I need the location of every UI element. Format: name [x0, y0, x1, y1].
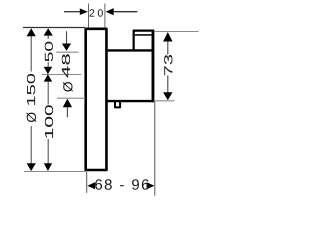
dim D48 label 48	[62, 54, 70, 77]
dim D150 top arrow	[27, 28, 36, 36]
dim D48 label diameter sign	[63, 82, 73, 92]
dim 20 right arrow	[106, 8, 114, 15]
dim 100 line lower	[47, 139, 49, 164]
dim D150 bottom arrow	[27, 163, 36, 171]
handle top cap	[134, 31, 153, 51]
dim D150 label diameter sign	[27, 112, 37, 122]
dim D150 label 150	[27, 74, 35, 105]
dim 68-96 label	[95, 179, 149, 190]
dim 73 bottom arrow	[167, 75, 169, 92]
handle body	[106, 50, 153, 101]
bottom extension line left of plate	[24, 171, 86, 173]
dim 73 label	[164, 55, 172, 75]
dim 100 line upper	[47, 82, 49, 105]
dim 73 bottom extension line	[154, 100, 175, 102]
dim 50 label	[45, 42, 53, 62]
dim 20 left arrow	[64, 11, 80, 13]
dim 50 bowtie down arrow	[44, 67, 53, 74]
dim 20 label	[89, 9, 102, 16]
dim D48 down arrow	[62, 44, 71, 51]
dim 68-96 right extension line	[154, 102, 156, 196]
dim 73 top extension line	[154, 31, 199, 33]
handle front face	[152, 30, 155, 103]
dim 50 top arrow	[44, 28, 53, 35]
dim D150 line lower	[30, 126, 32, 164]
dim D48 top tail	[66, 31, 68, 43]
dim 100 bottom arrow	[44, 163, 52, 171]
dim 100 label	[45, 105, 53, 138]
dim 68-96 left extension line	[86, 172, 88, 193]
escutcheon plate (side view)	[86, 29, 107, 170]
dim 68-96 left arrow	[87, 182, 95, 189]
handle axis extension line	[42, 74, 81, 76]
dim 20 left extension line	[88, 4, 90, 28]
dim 20 right extension line	[104, 4, 106, 28]
handle-top extension line	[56, 51, 78, 53]
top extension line left of plate	[23, 27, 85, 29]
dim 100 bowtie up arrow	[44, 74, 53, 81]
handle-bottom extension line	[57, 97, 85, 99]
cap seam line	[135, 34, 152, 36]
dim D48 bottom tail	[66, 107, 68, 117]
dim D150 line upper	[30, 36, 32, 72]
dim 68-96 right arrow	[147, 182, 155, 189]
dim 73 top arrow	[163, 32, 172, 42]
dim D48 up arrow	[63, 99, 72, 108]
dim 50 line	[47, 62, 49, 67]
small tab under handle	[115, 102, 120, 108]
